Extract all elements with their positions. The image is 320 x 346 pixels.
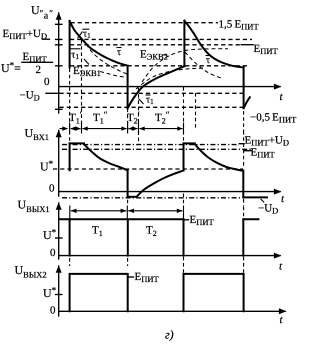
svg-text:″: ″ bbox=[49, 8, 53, 18]
U_BYX2 U* tick bbox=[56, 294, 62, 296]
leader line tau1 label 3 bbox=[139, 99, 144, 105]
svg-text:0: 0 bbox=[50, 247, 56, 259]
svg-text:0: 0 bbox=[49, 183, 55, 195]
svg-text:0: 0 bbox=[44, 76, 50, 88]
U_BYX1 waveform bbox=[60, 218, 184, 220]
T interval arrow row, top plot bbox=[60, 128, 67, 130]
svg-text:2: 2 bbox=[36, 64, 42, 76]
Epit+UD label connector bbox=[43, 38, 50, 40]
svg-text:а: а bbox=[44, 10, 49, 21]
top plot axis ticks bbox=[56, 24, 62, 109]
U_BYX2 waveform bbox=[70, 274, 128, 311]
dashed construction curve tau1 fast decay, cycle 2 bbox=[185, 52, 222, 78]
U_BYX1 U* tick bbox=[56, 237, 62, 239]
middle level Epit+UD dash-dot bbox=[62, 144, 239, 146]
middle plot y-axis (U_BX1) bbox=[58, 131, 60, 197]
svg-text:τ: τ bbox=[206, 55, 210, 66]
svg-text:г): г) bbox=[165, 328, 174, 342]
Epit label connector U_BYX2 bbox=[129, 276, 134, 278]
dashed construction curve fast rise to Eekv2 bbox=[142, 49, 228, 82]
level line Epit dashed bbox=[70, 44, 241, 46]
level line U* dashed bbox=[70, 65, 247, 67]
middle level -UD dash-dot bbox=[62, 197, 242, 199]
dashed verticals middle axis to U_BYX1 bbox=[127, 194, 129, 206]
middle vertical dashed lines bbox=[69, 131, 71, 143]
U_BYX2 t-axis bbox=[59, 310, 285, 312]
U_BYX1 t-axis bbox=[59, 255, 280, 257]
dashed ticks between plots bbox=[69, 258, 71, 266]
top plot t-axis bbox=[59, 86, 280, 88]
middle plot t-axis bbox=[59, 191, 280, 193]
svg-text:τ1: τ1 bbox=[71, 50, 79, 62]
T arrow row under middle plot bbox=[71, 210, 127, 212]
middle level U* dashed bbox=[53, 168, 243, 170]
Epit label connector U_BYX1 bbox=[185, 219, 189, 221]
main waveform U_a solid bbox=[69, 21, 71, 68]
level line -0,5Epit dashed bbox=[60, 106, 246, 108]
level line 1,5Epit dashed bbox=[71, 22, 184, 24]
level line -UD dashed bbox=[60, 92, 243, 94]
svg-text:τ: τ bbox=[117, 47, 121, 58]
-UD label connector middle bbox=[261, 199, 265, 202]
U_BYX2 y-axis bbox=[58, 266, 60, 316]
svg-text:τ1: τ1 bbox=[146, 95, 154, 107]
svg-text:0: 0 bbox=[50, 305, 56, 317]
U_BYX1 y-axis bbox=[58, 203, 60, 259]
top plot y-axis (U_a) bbox=[58, 13, 60, 113]
svg-text:τ1: τ1 bbox=[83, 29, 91, 41]
leader line tau1 label 1 bbox=[78, 32, 83, 39]
level line Epit+UD dashed bbox=[70, 38, 252, 40]
Epit label connector bbox=[241, 44, 253, 46]
middle level Epit dash-dot bbox=[62, 148, 251, 150]
middle waveform U_BX1 solid bbox=[69, 143, 71, 170]
dashed construction curve tau1 fast decay, cycle 1 bbox=[86, 44, 127, 74]
dashed construction curve slow rise continuation (tau bar) bbox=[136, 68, 205, 89]
vertical dashed timing lines, top plot bbox=[69, 69, 71, 132]
dashed construction curve Eekv1 tail bbox=[100, 72, 128, 78]
-UD label connector bbox=[46, 92, 59, 94]
